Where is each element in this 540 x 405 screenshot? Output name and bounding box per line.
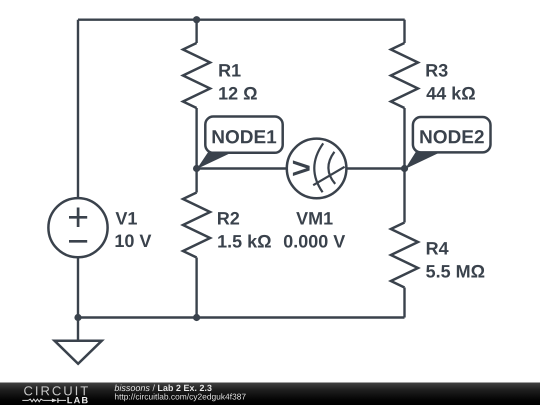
- junction dot node A (NODE1): [193, 165, 200, 172]
- NODE1 text: [213, 130, 277, 143]
- wire: R2 top stub: [195, 169, 197, 193]
- wire: R4 top stub: [403, 169, 405, 223]
- value 5.5 MΩ: [426, 265, 484, 278]
- resistor R3: [391, 43, 475, 108]
- logo mini-schematic: diode bar: [57, 398, 59, 403]
- VM1 needle: [313, 167, 344, 185]
- wire: top horizontal rail: [78, 19, 405, 21]
- resistor R4: [391, 223, 484, 288]
- logo wordmark LAB: [67, 397, 87, 403]
- wire: R2 bottom stub: [195, 258, 197, 318]
- logo mini-schematic: resistor zigzag: [28, 399, 43, 402]
- NODE2 callout tail: [405, 150, 445, 169]
- label R4: [427, 242, 449, 254]
- VM1 arrow glyph: [293, 160, 310, 176]
- junction dot top (R1/top rail): [193, 16, 200, 23]
- NODE1 callout tail: [197, 150, 237, 169]
- resistor R3 zigzag: [391, 43, 418, 108]
- wire: middle right (voltmeter to node2): [346, 167, 404, 169]
- voltage source V1 circle: [48, 198, 107, 257]
- ground: [55, 341, 102, 364]
- NODE2 text: [420, 130, 483, 143]
- VM1 meter arc outer: [314, 143, 323, 192]
- junction dot bottom left (ground tee): [74, 314, 81, 321]
- resistor R1: [183, 43, 257, 108]
- V1 minus sign: [69, 240, 87, 243]
- value 0.000 V: [284, 235, 345, 248]
- node NODE1 callout: [197, 117, 283, 170]
- footer title line: [115, 384, 212, 391]
- value 12 Ω: [219, 87, 257, 100]
- voltage source V1: [48, 198, 151, 257]
- resistor R4 zigzag: [391, 223, 418, 288]
- value 1.5 kΩ: [218, 234, 271, 247]
- value 44 kΩ: [426, 86, 474, 99]
- wire: middle left (node1 to voltmeter): [197, 167, 287, 169]
- junction dot node B (NODE2): [401, 165, 408, 172]
- footer bar: [0, 383, 540, 405]
- wire: R4 bottom stub: [403, 288, 405, 318]
- logo mini-schematic: wire to diode: [43, 399, 52, 401]
- value 10 V: [116, 234, 152, 247]
- VM1 meter arc inner: [328, 152, 335, 184]
- wire: R3 top stub: [403, 20, 405, 43]
- resistor R1 zigzag: [183, 43, 210, 108]
- resistor R2: [183, 193, 271, 258]
- junction dot bottom middle (R2/bottom rail): [193, 314, 200, 321]
- node NODE2 callout: [405, 117, 491, 169]
- logo mini-schematic: diode triangle: [52, 399, 57, 403]
- NODE2 callout box: [413, 117, 491, 152]
- V1 plus sign: [69, 208, 87, 228]
- wire: bottom horizontal rail: [78, 316, 405, 318]
- wire: left vertical upper (to V1 top): [77, 20, 79, 199]
- logo mini-schematic: wire after diode: [59, 399, 67, 401]
- wire: left vertical lower (V1 bottom to ground rail): [77, 257, 79, 340]
- footer url line: [115, 393, 246, 401]
- logo mini-schematic: lead wire: [22, 399, 28, 401]
- voltmeter VM1 circle: [287, 139, 347, 199]
- label R3: [426, 64, 447, 77]
- label R2: [218, 212, 239, 225]
- CircuitLab logo wordmark CIRCUIT: [24, 386, 88, 395]
- NODE1 callout box: [205, 117, 282, 153]
- label V1: [116, 212, 137, 224]
- wire: R1 bottom stub to node1: [195, 108, 197, 169]
- resistor R2 zigzag: [183, 193, 210, 258]
- wire: R3 bottom stub to node2: [403, 108, 405, 169]
- voltmeter VM1: [284, 139, 346, 248]
- wire: R1 top stub: [195, 20, 197, 43]
- label VM1: [296, 212, 332, 224]
- label R1: [219, 64, 240, 76]
